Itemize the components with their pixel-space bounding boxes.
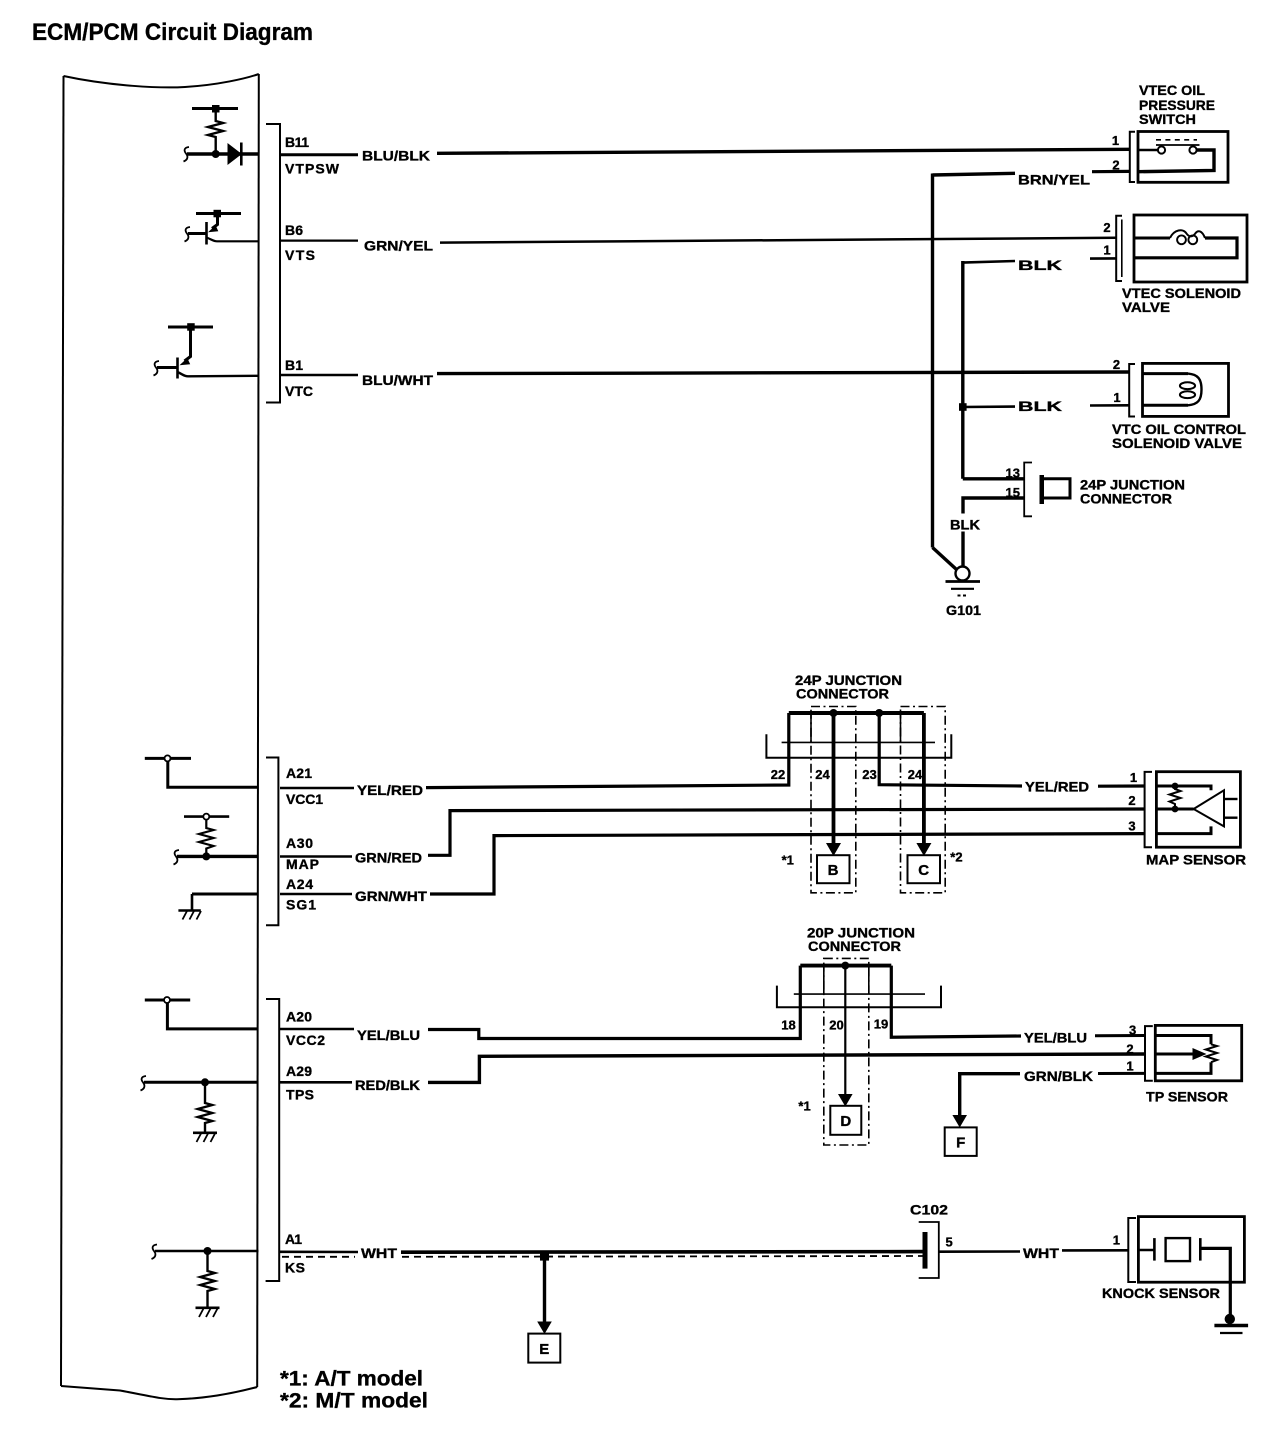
svg-text:2: 2 [1113, 357, 1120, 372]
svg-text:24: 24 [908, 767, 923, 782]
wire diagonal into G101 [933, 548, 957, 570]
svg-text:2: 2 [1103, 220, 1110, 235]
resistor (A1 pull-down) [200, 1251, 214, 1308]
wire pin24 down to C [922, 713, 926, 844]
wire YEL/BLU to TP bracket [1095, 1034, 1145, 1037]
connector C102 bar [923, 1232, 928, 1269]
wire A24 internal [192, 893, 259, 896]
svg-text:WHT: WHT [1023, 1245, 1059, 1261]
knock lead to ground [1200, 1248, 1230, 1318]
svg-text:VTEC OIL: VTEC OIL [1139, 82, 1205, 98]
TP sensor box [1155, 1025, 1241, 1080]
wire A21 YEL/RED stub [280, 787, 354, 790]
wire YEL/BLU to junction 18 [428, 966, 800, 1039]
arrowhead to D [838, 1094, 853, 1107]
svg-text:22: 22 [771, 767, 785, 782]
junction bus bar (20P) [800, 964, 891, 968]
svg-text:C102: C102 [910, 1202, 948, 1218]
junction housing [766, 734, 951, 757]
svg-text:B1: B1 [285, 357, 303, 373]
svg-text:BLK: BLK [950, 517, 980, 533]
ECM pin bracket group 2 [266, 758, 278, 926]
knock internal lead [1138, 1249, 1154, 1252]
svg-text:A20: A20 [286, 1009, 312, 1025]
svg-text:SG1: SG1 [286, 897, 316, 913]
squiggle left end B6 [185, 227, 191, 242]
arrowhead to B [826, 843, 841, 856]
switch internal: dashed bar [1156, 139, 1197, 141]
switch internal: return path [1138, 150, 1214, 172]
MAP output stubs [1224, 798, 1238, 800]
wire GRN/BLK left + down to F [960, 1074, 1020, 1116]
svg-text:VCC1: VCC1 [286, 791, 323, 807]
wire BLK left segment (VTC) [963, 405, 1015, 408]
wire BRN/YEL left segment [933, 173, 1016, 175]
TP wiper arrowhead [1193, 1048, 1207, 1060]
transistor Q (B6) collector arrowhead [208, 225, 218, 232]
switch contact circle right [1189, 146, 1196, 153]
svg-text:CONNECTOR: CONNECTOR [1080, 491, 1172, 507]
VTC coil lead-out (pin1) [1143, 404, 1189, 407]
wire A30 GRN/RED stub [280, 855, 352, 858]
wire B1 BLU/WHT stub [280, 374, 358, 377]
svg-text:18: 18 [781, 1018, 795, 1033]
solenoid coil lead-in [1134, 237, 1170, 240]
wire A20 internal [167, 1003, 258, 1029]
solenoid coil (VTEC) [1170, 230, 1205, 238]
svg-text:VTC: VTC [285, 383, 313, 399]
junction dot A30 [202, 852, 210, 860]
MAP resistor [1170, 786, 1181, 809]
svg-text:GRN/YEL: GRN/YEL [364, 238, 433, 254]
wire BLU/BLK long [437, 149, 1130, 153]
junction dot on supply bar B6 [214, 210, 222, 218]
wire pin19 out (YEL/BLU to TP) [891, 966, 1021, 1038]
wire pin 15 + BLK down to ground [963, 498, 1024, 514]
MAP resistor bottom dot [1172, 806, 1179, 813]
supply bar A30 [184, 815, 229, 818]
MAP resistor top dot [1172, 783, 1179, 790]
svg-text:2: 2 [1128, 793, 1135, 808]
resistor (A30 pull) [199, 820, 214, 854]
wire BRN/YEL right stub [1092, 170, 1129, 174]
wire GRN/YEL long [440, 238, 1116, 243]
wire BLU/WHT long [437, 372, 1129, 374]
svg-text:D: D [840, 1113, 851, 1130]
wire WHT (C102 to knock) [939, 1250, 1020, 1253]
wire pin23 down and out (YEL/RED to MAP) [879, 713, 1022, 786]
base wire B1 [157, 366, 178, 369]
arrowhead to C [916, 843, 931, 856]
squiggle left end A1 [152, 1245, 158, 1260]
connector bracket (MAP) [1145, 772, 1152, 847]
ground bars (knock) [1214, 1324, 1248, 1327]
svg-text:BLU/BLK: BLU/BLK [362, 148, 430, 164]
svg-text:A30: A30 [286, 835, 313, 851]
svg-text:VALVE: VALVE [1122, 299, 1170, 315]
shield dashed line [282, 1256, 355, 1258]
svg-text:GRN/WHT: GRN/WHT [355, 888, 427, 904]
TP pin3 lead [1155, 1036, 1211, 1045]
squiggle left end B11 [184, 147, 190, 162]
connector bracket (knock) [1128, 1218, 1136, 1282]
ground bar A29 [193, 1132, 217, 1135]
wire down to E [543, 1256, 546, 1322]
knock piezo square [1166, 1238, 1190, 1261]
connector bracket (TP) [1145, 1026, 1153, 1081]
svg-text:E: E [539, 1341, 549, 1358]
svg-text:VTS: VTS [285, 247, 315, 263]
svg-text:23: 23 [862, 767, 876, 782]
junction dot A29 [201, 1078, 209, 1086]
junction dot on supply bar B1 [187, 323, 195, 331]
svg-text:BLK: BLK [1018, 398, 1062, 414]
knock plate left [1153, 1238, 1156, 1261]
resistor R (B11 pull-up) [208, 109, 223, 152]
connector bar (24P upper) [1040, 475, 1045, 504]
junction dot BLK/vertical [959, 403, 967, 411]
wire BRN/YEL vertical to ground [931, 174, 934, 548]
connector box E [528, 1334, 560, 1363]
ground symbol A24 [178, 894, 200, 911]
junction housing inner line (20P) [794, 993, 925, 995]
svg-text:BLU/WHT: BLU/WHT [362, 372, 433, 388]
MAP pin1 lead [1156, 786, 1211, 790]
ECM body [61, 74, 259, 1399]
svg-text:1: 1 [1126, 1059, 1133, 1074]
arrowhead to F [952, 1115, 967, 1128]
wire GRN/RED long (to MAP pin2) [428, 809, 1144, 855]
svg-text:TP SENSOR: TP SENSOR [1146, 1089, 1228, 1105]
junction dot on supply bar [212, 105, 220, 113]
svg-text:B6: B6 [285, 222, 303, 238]
wire RED/BLK long (to TP pin2) [428, 1054, 1145, 1082]
svg-text:B11: B11 [285, 134, 309, 150]
svg-text:3: 3 [1128, 819, 1135, 834]
svg-text:ECM/PCM Circuit Diagram: ECM/PCM Circuit Diagram [32, 19, 313, 46]
wire A30 internal [177, 855, 259, 858]
knock plate right [1199, 1238, 1202, 1261]
diode D (B11) [228, 144, 241, 164]
svg-text:5: 5 [946, 1235, 953, 1250]
bus junction dot (20P) [841, 962, 849, 970]
supply bar A20 [145, 999, 190, 1002]
svg-text:1: 1 [1112, 133, 1119, 148]
ground hatches A24 [183, 911, 202, 920]
connector bracket (24P upper) [1024, 463, 1032, 517]
supply circle A21 [165, 755, 171, 761]
ground G101 circle [956, 567, 970, 581]
wire A21 internal [168, 761, 259, 787]
wire BLK right stub (VTEC solenoid) [1090, 257, 1116, 260]
svg-text:VTPSW: VTPSW [285, 161, 340, 177]
ground dot (knock) [1225, 1314, 1235, 1324]
wire YEL/RED to junction 22 [426, 713, 789, 788]
svg-text:GRN/BLK: GRN/BLK [1024, 1068, 1093, 1084]
svg-text:2: 2 [1126, 1042, 1133, 1057]
transistor Q (B1) emitter [178, 372, 259, 376]
svg-text:CONNECTOR: CONNECTOR [796, 686, 889, 702]
svg-text:24: 24 [815, 767, 830, 782]
connector pin bar (VTEC solenoid) [1121, 220, 1123, 278]
svg-text:F: F [956, 1135, 965, 1152]
connector bracket (pressure switch) [1130, 132, 1135, 182]
svg-text:3: 3 [1129, 1023, 1136, 1038]
squiggle left end A30 [174, 850, 180, 865]
transistor Q (B1) base bar [176, 358, 179, 379]
svg-text:A24: A24 [286, 876, 313, 892]
svg-text:1: 1 [1113, 1233, 1120, 1248]
junction housing inner line [782, 741, 935, 743]
svg-text:MAP SENSOR: MAP SENSOR [1146, 852, 1246, 868]
dash-dot box *1 (A/T) [811, 707, 856, 893]
wire GRN/BLK right stub (TP pin1) [1098, 1072, 1145, 1075]
wire YEL/RED to MAP bracket [1098, 784, 1144, 787]
connector box F [945, 1127, 977, 1156]
VTEC oil pressure switch box [1138, 132, 1228, 183]
VTC oil control solenoid valve box [1143, 363, 1229, 416]
svg-text:*1: *1 [782, 853, 794, 868]
MAP pin2 lead to amp [1156, 808, 1193, 811]
junction dot on B11 wire [212, 150, 220, 158]
svg-text:C: C [918, 862, 929, 879]
bus junction dot 1 [830, 709, 838, 717]
squiggle left end B1 [154, 361, 160, 376]
TP resistor [1206, 1044, 1217, 1062]
svg-text:VCC2: VCC2 [286, 1032, 325, 1048]
wire pin24 down to B [832, 713, 836, 844]
svg-text:YEL/BLU: YEL/BLU [357, 1027, 420, 1043]
ground hatches A29 [197, 1134, 216, 1143]
switch internal: solid bar [1156, 144, 1200, 146]
supply rail bar (B6) [196, 212, 241, 215]
supply rail bar (B11 pull-up) [192, 107, 238, 110]
ground G101 bars [946, 580, 981, 583]
resistor (A29 pull-down) [198, 1082, 212, 1132]
switch contact circle left [1158, 146, 1165, 153]
svg-text:1: 1 [1113, 390, 1120, 405]
svg-text:A21: A21 [286, 765, 312, 781]
ECM pin bracket group 1 [266, 124, 280, 403]
svg-text:YEL/BLU: YEL/BLU [1024, 1030, 1087, 1046]
MAP pin3 lead [1156, 826, 1211, 833]
wire A24 GRN/WHT stub [280, 893, 352, 896]
VTC coil lead-in (pin2) [1143, 372, 1189, 375]
junction bus bar [789, 711, 924, 715]
connector box D [830, 1106, 861, 1135]
connector C102 bracket [919, 1222, 939, 1278]
svg-text:B: B [828, 862, 839, 879]
svg-text:RED/BLK: RED/BLK [355, 1077, 420, 1093]
connector body (24P upper) [1044, 479, 1070, 498]
connector box C [908, 855, 941, 883]
svg-text:YEL/RED: YEL/RED [1025, 779, 1089, 795]
wire A29 internal [144, 1081, 259, 1084]
svg-text:YEL/RED: YEL/RED [357, 782, 423, 798]
MAP sensor box [1156, 772, 1240, 848]
wire A1 WHT stub [280, 1251, 358, 1254]
svg-text:*2: M/T model: *2: M/T model [280, 1390, 428, 1413]
dash-dot box *1 (D) [824, 958, 869, 1145]
squiggle left end A29 [141, 1076, 147, 1091]
svg-text:KNOCK SENSOR: KNOCK SENSOR [1102, 1285, 1220, 1301]
pin labels [285, 134, 340, 1276]
ground bar A1 [196, 1307, 220, 1310]
svg-text:A29: A29 [286, 1063, 312, 1079]
wire WHT to knock bracket [1062, 1249, 1128, 1252]
svg-text:1: 1 [1103, 243, 1110, 258]
svg-text:*1: A/T model: *1: A/T model [280, 1368, 423, 1391]
connector teeth (20P) [823, 966, 825, 995]
wire A1 internal [155, 1250, 259, 1253]
transistor Q (B1) collector arrowhead [180, 358, 191, 365]
supply circle A30 [203, 814, 209, 820]
svg-text:MAP: MAP [286, 856, 319, 872]
wire BLK right stub (VTC valve) [1090, 404, 1129, 407]
svg-text:*2: *2 [950, 850, 962, 865]
VTC coil body [1188, 374, 1202, 406]
junction dot shield/E [540, 1252, 549, 1261]
svg-text:1: 1 [1130, 770, 1137, 785]
wire pin20 down to D [844, 966, 846, 1095]
svg-text:A1: A1 [285, 1231, 302, 1247]
dash-dot box *2 (M/T) [901, 707, 946, 893]
TP pin1 lead [1155, 1062, 1211, 1073]
wire B6 GRN/YEL stub [280, 240, 358, 242]
svg-text:SWITCH: SWITCH [1139, 111, 1196, 127]
svg-text:BLK: BLK [1018, 257, 1062, 273]
connector bracket (VTC valve) [1129, 364, 1135, 417]
wire GRN/WHT long (to MAP pin3) [430, 834, 1144, 894]
junction housing (20P) [777, 986, 941, 1008]
transistor Q (B1) collector [185, 327, 191, 361]
supply bar A21 [145, 757, 191, 760]
ground hatches A1 [199, 1309, 218, 1318]
MAP amplifier triangle [1194, 790, 1224, 826]
switch internal: pin1 lead [1138, 149, 1158, 152]
svg-text:CONNECTOR: CONNECTOR [808, 938, 901, 954]
wire A20 YEL/BLU stub [280, 1028, 354, 1031]
svg-text:*1: *1 [798, 1099, 810, 1114]
ECM pin bracket group 3 [266, 999, 280, 1281]
svg-text:BRN/YEL: BRN/YEL [1018, 172, 1091, 188]
connector bracket (VTEC solenoid) [1116, 216, 1122, 281]
wire A29 RED/BLK stub [280, 1081, 352, 1084]
base wire B6 [188, 232, 207, 235]
svg-text:WHT: WHT [361, 1245, 397, 1261]
svg-text:20: 20 [829, 1018, 843, 1033]
transistor Q (B6) emitter [207, 238, 259, 242]
wire B11 BLU/BLK stub [280, 153, 358, 156]
transistor Q (B6) collector [212, 214, 218, 229]
connector box B [817, 855, 850, 883]
svg-text:G101: G101 [946, 602, 981, 618]
wire BLK vertical (to junction 13) [961, 261, 964, 479]
supply rail bar (B1) [168, 326, 213, 329]
supply circle A20 [164, 997, 170, 1003]
wire BLK left segment [963, 261, 1016, 263]
bus junction dot 2 [875, 709, 883, 717]
VTEC solenoid valve box [1134, 215, 1247, 282]
wire WHT long [401, 1250, 923, 1254]
junction dot A1 [204, 1247, 212, 1255]
transistor Q (B6) base bar [205, 222, 208, 245]
svg-text:GRN/RED: GRN/RED [355, 850, 422, 866]
arrowhead to E [537, 1322, 552, 1335]
TP pin2 wiper lead [1155, 1053, 1193, 1056]
wire B11 internal [187, 152, 259, 155]
svg-text:19: 19 [874, 1017, 888, 1032]
wire pin 13 [963, 477, 1024, 480]
svg-text:SOLENOID VALVE: SOLENOID VALVE [1112, 435, 1242, 451]
svg-text:TPS: TPS [286, 1087, 314, 1103]
knock sensor box [1138, 1217, 1244, 1283]
svg-text:KS: KS [285, 1260, 305, 1276]
connector teeth [810, 713, 812, 742]
solenoid coil lead-out and return [1134, 238, 1237, 258]
